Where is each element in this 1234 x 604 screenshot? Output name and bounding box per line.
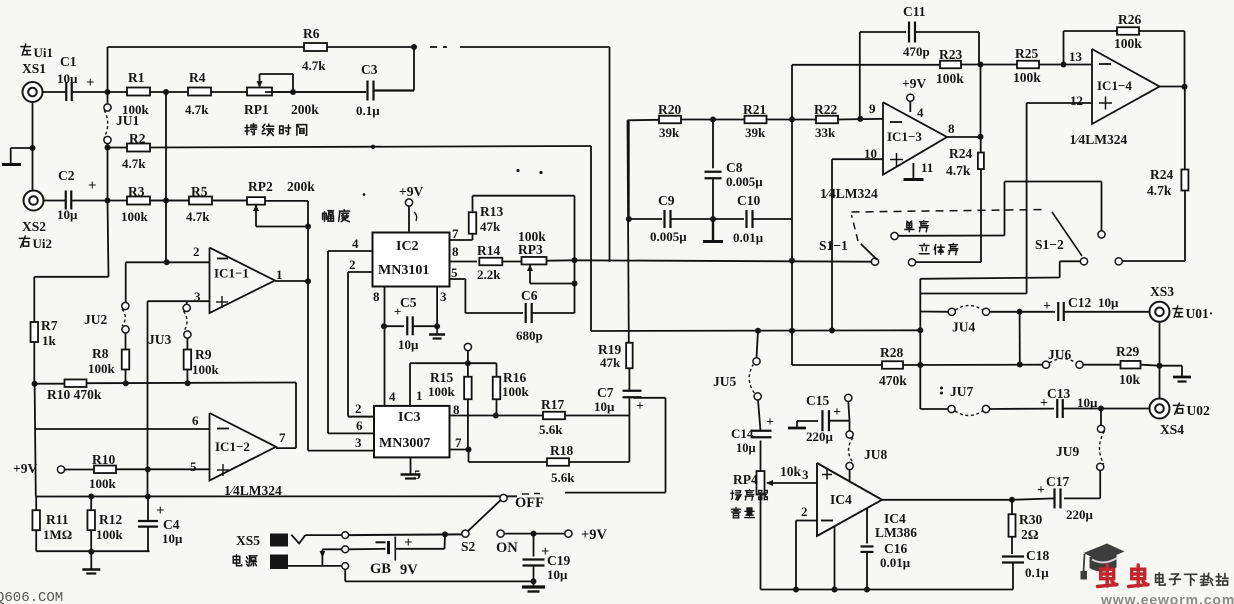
wire JU6 to R29: [1083, 364, 1121, 366]
wire: C2 to node B: [72, 200, 108, 202]
svg-text:0.01μ: 0.01μ: [733, 230, 764, 245]
junction gnd rail: [88, 549, 94, 555]
contact mid XS5: [342, 546, 349, 553]
svg-text:IC1−2: IC1−2: [215, 439, 250, 454]
ground main: [82, 552, 100, 574]
wire: pin10 of IC1-3: [832, 158, 883, 160]
svg-text:+: +: [86, 75, 95, 91]
resistor R26 100k loop: [1064, 12, 1185, 87]
svg-text:8: 8: [452, 244, 459, 259]
battery GB 9V: [370, 534, 445, 578]
svg-text:R28: R28: [880, 345, 903, 360]
junction R15 top rail: [465, 360, 471, 366]
resistor R20 39k: [658, 102, 681, 140]
svg-text:Ui2: Ui2: [33, 236, 53, 251]
svg-text:XS5: XS5: [236, 533, 260, 548]
svg-text:R10: R10: [92, 452, 115, 467]
wire: JU4 to C12: [990, 311, 1056, 313]
svg-text:R13: R13: [480, 204, 503, 219]
svg-text:1∕4LM324: 1∕4LM324: [1070, 132, 1128, 147]
capacitor C14 10u: [731, 415, 774, 471]
junction pin9 node: [857, 116, 863, 122]
wire: pin3 of IC1-1: [148, 300, 210, 302]
svg-text:GB: GB: [370, 561, 391, 577]
junction pin2 on rail: [793, 587, 799, 593]
switch S2 ON/OFF: [461, 494, 544, 556]
svg-text:R14: R14: [477, 243, 500, 258]
resistor R14 2.2k: [477, 243, 502, 282]
svg-text:R4: R4: [189, 70, 206, 85]
wire gnd to C15: [797, 420, 818, 422]
svg-text:+: +: [1043, 299, 1051, 314]
junction IC4 output node: [1009, 497, 1015, 503]
svg-text:IC3: IC3: [398, 410, 421, 425]
capacitor C9 0.005u: [629, 193, 713, 244]
svg-text:MN3101: MN3101: [378, 263, 429, 278]
wire: R20 rail corner: [628, 119, 660, 122]
wire: XS1 sleeve to XS2: [32, 102, 34, 190]
junction JU5 tap: [755, 328, 761, 334]
svg-text:IC1−4: IC1−4: [1097, 78, 1132, 93]
svg-text:4: 4: [352, 236, 359, 251]
svg-text:4.7k: 4.7k: [302, 58, 326, 73]
op-amp IC1-3: [864, 101, 955, 175]
resistor R13 47k: [469, 196, 504, 240]
wire: JU7 to C13: [990, 408, 1055, 410]
svg-text:IC1−1: IC1−1: [214, 266, 249, 281]
svg-text:33k: 33k: [815, 125, 836, 140]
resistor R29 10k: [1116, 344, 1141, 387]
wire: C7/R19 column: [628, 398, 630, 462]
svg-text:1k: 1k: [42, 333, 57, 348]
svg-text:0.005μ: 0.005μ: [726, 174, 763, 189]
svg-text:JU3: JU3: [148, 332, 171, 347]
junction C19 tap: [531, 531, 537, 537]
junction vref rail / pin3-column: [145, 494, 151, 500]
jumper JU6: [1042, 347, 1083, 368]
mech link dashed S1: [852, 210, 1083, 257]
svg-text:220μ: 220μ: [1066, 507, 1094, 522]
svg-text:C5: C5: [400, 295, 417, 310]
wire: IC1-1 output: [275, 280, 308, 282]
wire: R13 top loop to RP3 right: [473, 195, 575, 197]
svg-text:R20: R20: [658, 102, 681, 117]
resistor R19 47k: [598, 342, 633, 370]
junction link bottom: [1017, 362, 1023, 368]
svg-text:100k: 100k: [121, 209, 149, 224]
wire: C15 to JU8 column: [829, 420, 850, 422]
junction R8 bottom on rail: [123, 380, 129, 386]
wire: IC1-4 output: [1160, 86, 1185, 88]
jumper JU4: [948, 306, 989, 335]
op-amp IC1-1: [193, 244, 283, 313]
wire: R17 to C7 column: [565, 415, 629, 417]
jack XS3: [1150, 284, 1214, 322]
ground C15: [788, 421, 806, 428]
resistor R5 4.7k: [186, 184, 212, 224]
resistor R17 5.6k: [539, 397, 565, 437]
capacitor C5 10u: [384, 295, 437, 352]
svg-text:4: 4: [917, 105, 924, 120]
svg-text:JU2: JU2: [84, 312, 107, 327]
svg-text:C18: C18: [1026, 548, 1049, 563]
svg-text:C11: C11: [903, 4, 926, 19]
svg-text:12: 12: [1070, 93, 1083, 108]
junction battery riser: [442, 531, 448, 537]
wire rail to R16: [468, 362, 497, 364]
wire: rail y330 from mix column: [591, 329, 920, 332]
label 扬声器 speaker: [731, 491, 741, 500]
junction R7 bottom: [32, 381, 38, 387]
wire: XS1 to C1: [43, 91, 67, 93]
jack XS1: [23, 82, 43, 102]
wire: C12 to XS3: [1064, 311, 1150, 313]
svg-text:0.1μ: 0.1μ: [356, 103, 380, 118]
wire R21-R22: [767, 119, 817, 121]
svg-text:R1: R1: [128, 70, 145, 85]
junction C8 top: [710, 117, 716, 123]
label 立体声 (stereo): [919, 244, 929, 254]
svg-text:1MΩ: 1MΩ: [43, 527, 72, 542]
capacitor C4 10u: [138, 497, 183, 552]
wire: R19 top to C9 junction and R20 rail: [628, 120, 629, 342]
svg-text:R12: R12: [99, 512, 122, 527]
resistor R22 33k: [814, 102, 838, 140]
resistor R18 5.6k: [547, 443, 575, 485]
ground C8: [703, 219, 723, 242]
wire: R1 R4 RP1 row: [108, 91, 367, 93]
svg-text:10μ: 10μ: [1098, 295, 1119, 310]
svg-text:RP1: RP1: [244, 102, 269, 117]
svg-text:R26: R26: [1118, 12, 1141, 27]
svg-text:13: 13: [1069, 49, 1083, 64]
ground C19: [522, 581, 545, 591]
wire: XS3 sleeve down: [1159, 322, 1161, 399]
svg-text:10μ: 10μ: [594, 399, 615, 414]
wire: IC3 pin7 to R18: [450, 449, 469, 451]
resistor R25 100k: [1013, 46, 1041, 85]
wire: JU5 to rail330: [757, 331, 759, 358]
junction R23/R25/output: [978, 62, 984, 68]
wire: pin to top contact: [305, 534, 341, 536]
node: input label XS2 右Ui2: [19, 219, 52, 251]
svg-text:www.eeworm.com: www.eeworm.com: [1100, 592, 1234, 604]
wire: link JU4 row to JU6 row: [1019, 312, 1021, 365]
junction pin5 / pin3-column: [145, 466, 151, 472]
junction R21/R22: [789, 117, 795, 123]
wire: IC4 output: [882, 499, 1012, 501]
svg-text:10μ: 10μ: [162, 531, 183, 546]
resistor R3 100k: [121, 184, 150, 224]
wire R22 to pin9: [838, 118, 883, 121]
junction mono rail x792: [789, 258, 795, 264]
svg-text:Ui1: Ui1: [34, 45, 54, 60]
wire: jack body to bottom contact: [288, 565, 342, 567]
svg-text:0.005μ: 0.005μ: [650, 229, 687, 244]
wire: jack pin check mark: [291, 535, 305, 544]
svg-text:9V: 9V: [400, 562, 418, 578]
wire: IC2 pin4 to IC3 pin6 column: [328, 250, 373, 252]
capacitor C12 10u: [1043, 295, 1119, 321]
svg-text:R2: R2: [129, 131, 146, 146]
resistor R10 470k: [35, 379, 296, 402]
svg-text:100k: 100k: [1013, 70, 1041, 85]
op-amp IC4 LM386: [801, 463, 917, 540]
terminal C15 column top: [845, 394, 852, 420]
wire: pin2 route: [796, 520, 817, 522]
junction R1/R4: [163, 89, 169, 95]
resistor R28 470k: [879, 345, 907, 388]
wire: node B down to R7 branch: [108, 201, 109, 277]
wire: top row to S2: [349, 533, 462, 536]
node A junction: [105, 89, 111, 95]
svg-text:+: +: [766, 415, 774, 430]
capacitor C15 220u: [806, 393, 841, 444]
svg-text:100k: 100k: [192, 362, 220, 377]
svg-text:S1−1: S1−1: [819, 238, 848, 253]
junction pin4 on rail: [832, 587, 838, 593]
terminal +9V IC3 rail: [464, 343, 471, 363]
svg-text:470p: 470p: [903, 44, 930, 59]
svg-text:R30: R30: [1019, 512, 1042, 527]
svg-text:7: 7: [452, 226, 459, 241]
contact bottom XS5: [342, 563, 349, 570]
svg-text:ON: ON: [496, 540, 518, 556]
svg-text:2: 2: [349, 257, 356, 272]
wire: R18 to C7 column: [569, 461, 629, 463]
svg-text:C9: C9: [658, 193, 675, 208]
svg-text:200k: 200k: [291, 102, 319, 117]
wire: mid row to battery: [349, 548, 386, 551]
switch S1-1: [819, 232, 916, 266]
svg-text:JU7: JU7: [950, 384, 973, 399]
op-amp IC1-4: [1070, 49, 1160, 147]
svg-text:+: +: [833, 405, 841, 420]
svg-text:XS4: XS4: [1160, 422, 1184, 437]
wire: IC1-2 output to feedback corner: [276, 447, 296, 449]
svg-text:100k: 100k: [96, 527, 124, 542]
svg-text:JU1: JU1: [116, 113, 139, 128]
junction C5 left: [381, 323, 387, 329]
svg-text:C8: C8: [726, 160, 743, 175]
junction output R26/R24b: [1182, 84, 1188, 90]
svg-text:XS1: XS1: [22, 61, 46, 76]
svg-text:C2: C2: [58, 168, 75, 183]
wire R5 to RP2: [212, 200, 247, 202]
svg-text:3: 3: [440, 289, 447, 304]
capacitor C16 0.01u: [861, 509, 911, 590]
ground input: [2, 145, 36, 165]
label 幅度 (amplitude): [323, 211, 334, 222]
wire: mid contact NC arm: [320, 549, 342, 566]
svg-text:R5: R5: [191, 184, 208, 199]
resistor R10 100k (bias): [65, 452, 210, 491]
resistor R24 4.7k (IC1-3 load): [946, 137, 984, 262]
jumper JU1: [104, 92, 140, 144]
wire IC3 pin2: [348, 416, 374, 418]
jumper JU9: [1056, 409, 1105, 471]
wire RP2 to output column: [265, 200, 308, 202]
junction RP2 wiper: [305, 224, 311, 230]
wire: C3 to top rail corner: [374, 89, 414, 91]
jack XS4: [1150, 399, 1210, 438]
svg-text:0.1μ: 0.1μ: [1025, 565, 1049, 580]
svg-text:4.7k: 4.7k: [1147, 183, 1172, 198]
wire: IC3 pin8 to R17: [450, 415, 545, 417]
wire: IC2 pin8b stub to C5 and IC3 pin4: [384, 287, 386, 406]
svg-text:JU8: JU8: [864, 447, 887, 462]
svg-text:680p: 680p: [516, 328, 543, 343]
resistor R2 4.7k: [108, 131, 151, 171]
resistor R23 100k: [936, 47, 964, 86]
svg-text:100k: 100k: [88, 361, 116, 376]
svg-text:100k: 100k: [428, 384, 456, 399]
wire: R1R4 junction column: [165, 92, 167, 262]
wire: JU9 to C17: [1099, 470, 1101, 498]
wire: bottom rail IC4: [761, 589, 1014, 591]
svg-text:470k: 470k: [879, 373, 907, 388]
junction RP3 wiper: [572, 281, 578, 287]
junction R2 node: [105, 145, 111, 151]
svg-text:JU9: JU9: [1056, 444, 1079, 459]
svg-text:+9V: +9V: [902, 76, 926, 91]
wire: vref rail: [36, 495, 517, 497]
svg-text:6: 6: [356, 418, 363, 433]
svg-text:+9V: +9V: [399, 184, 423, 199]
wire: IC1-3 output: [947, 136, 981, 138]
wire IC3 pin6: [328, 432, 374, 434]
svg-text:2: 2: [801, 504, 808, 519]
svg-text:JU5: JU5: [713, 374, 736, 389]
svg-text:4.7k: 4.7k: [122, 156, 146, 171]
svg-text:R24: R24: [1150, 167, 1173, 182]
junction pin JU4/JU6 link top: [1017, 309, 1023, 315]
svg-text:39k: 39k: [745, 125, 766, 140]
svg-text:R22: R22: [814, 102, 837, 117]
svg-text:R11: R11: [46, 512, 69, 527]
svg-text:R9: R9: [195, 347, 212, 362]
wire: pin12 route: [1027, 102, 1092, 104]
pin 5 label IC3 + ground: [401, 457, 422, 482]
logo graduation cap: [1081, 544, 1125, 580]
svg-text:R21: R21: [743, 102, 766, 117]
logo text 电子下载站: [1156, 573, 1165, 585]
capacitor C13 10u: [1040, 386, 1098, 418]
svg-text:R7: R7: [41, 318, 58, 333]
svg-text:1∕4LM324: 1∕4LM324: [820, 186, 878, 201]
junction C9 left: [626, 216, 632, 222]
jumper JU2: [84, 302, 129, 333]
wire: stereo contact to R24a: [916, 261, 982, 263]
IC U2 MN3101: [373, 233, 450, 287]
wire: pin2 of IC1-1: [126, 261, 210, 263]
wire output node column: [980, 65, 982, 137]
potentiometer RP1 200k: [244, 74, 319, 117]
svg-text:2Ω: 2Ω: [1021, 527, 1039, 542]
svg-text:4.7k: 4.7k: [186, 209, 210, 224]
wire: R25 rail: [981, 64, 1018, 66]
svg-text:3: 3: [355, 435, 362, 450]
logo text 虫虫: [1098, 565, 1149, 587]
wire: bottom contact to gnd rail: [344, 569, 346, 581]
junction C3 top rail: [411, 44, 417, 50]
junction R12 top: [88, 494, 94, 500]
svg-text:100k: 100k: [502, 384, 530, 399]
svg-text:RP3: RP3: [518, 242, 543, 257]
wire: pin4 gnd stub: [834, 527, 836, 590]
svg-text:C16: C16: [884, 541, 907, 556]
node B junction: [105, 198, 111, 204]
wire IC3 pin3: [308, 450, 374, 452]
node: input label 左Ui1 / XS1: [21, 44, 53, 76]
svg-text:5: 5: [190, 459, 197, 474]
jack XS2: [24, 191, 44, 211]
svg-text:C13: C13: [1047, 386, 1070, 401]
wire: IC2 pin3 stub: [436, 287, 438, 327]
svg-text:LM386: LM386: [875, 525, 917, 540]
capacitor C11 470p: [860, 4, 979, 119]
wire: XS2 to C2: [44, 200, 66, 202]
wire R14 to RP3: [502, 261, 521, 263]
jumper JU8: [846, 421, 887, 470]
resistor R12 100k: [87, 497, 123, 552]
svg-text:C14: C14: [731, 426, 754, 441]
svg-text:R24: R24: [949, 146, 972, 161]
svg-text:9: 9: [869, 101, 876, 116]
wire: left column down to vref rail: [35, 384, 36, 497]
svg-text:39k: 39k: [659, 125, 680, 140]
wire: pin5 to C6: [450, 278, 466, 280]
wire: JU1 to R2 node: [107, 144, 109, 201]
resistor R4 4.7k: [185, 70, 211, 117]
junction pin10 column on rail330: [829, 327, 835, 333]
svg-text:10k: 10k: [1119, 372, 1141, 387]
svg-text:R15: R15: [430, 370, 453, 385]
svg-text:2: 2: [193, 244, 200, 259]
svg-text:S2: S2: [461, 539, 476, 554]
resistor R1 100k: [122, 70, 150, 117]
svg-text:+9V: +9V: [581, 527, 608, 543]
svg-text:S1−2: S1−2: [1035, 237, 1064, 252]
wire: pin3 column down to vref: [147, 301, 149, 496]
junction C16 on rail: [864, 587, 870, 593]
svg-text:+: +: [636, 399, 644, 414]
resistor R8 100k: [88, 333, 129, 384]
svg-text:47k: 47k: [600, 355, 621, 370]
wire: mix rail down right side: [590, 146, 592, 331]
svg-text:11: 11: [921, 160, 933, 175]
wire: R3 R5 RP2 row: [108, 200, 266, 202]
resistor R15 100k: [428, 363, 472, 449]
svg-text:RP2: RP2: [248, 179, 273, 194]
capacitor C7 10u: [594, 368, 644, 414]
IC U3 MN3007: [374, 406, 450, 458]
junction gnd rail C19: [531, 578, 537, 584]
wire: feedback rail corner to IC1-2 output: [295, 383, 297, 449]
svg-text:R8: R8: [92, 346, 109, 361]
ground pin11 IC1-3: [904, 160, 934, 180]
svg-text:7: 7: [455, 435, 462, 450]
junction R26 tap: [1061, 62, 1067, 68]
wire: top rail faded dashes: [430, 46, 437, 48]
svg-text:5.6k: 5.6k: [539, 422, 563, 437]
terminal +9V output: [565, 527, 608, 543]
resistor R7 1k: [31, 318, 58, 384]
svg-text:IC4: IC4: [884, 511, 906, 526]
junction x792 on rail330: [789, 328, 795, 334]
svg-text:IC4: IC4: [830, 492, 852, 507]
resistor R11 1M: [32, 497, 72, 552]
